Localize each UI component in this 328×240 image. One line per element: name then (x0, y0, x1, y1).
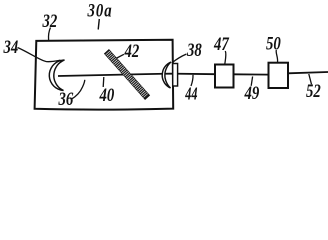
wire 52 output (288, 72, 328, 73)
mirror 38 meniscus (right, at box edge) (162, 62, 171, 88)
leader 47 (225, 51, 226, 64)
svg-text:34: 34 (3, 36, 19, 57)
leader 40 (102, 77, 105, 87)
leader 42 (114, 54, 124, 59)
mirror 38 substrate (173, 64, 178, 87)
mirror 34 (left, concave right) (49, 60, 64, 91)
svg-text:50: 50 (266, 33, 281, 54)
leader 34 (18, 48, 61, 62)
svg-text:32: 32 (42, 10, 58, 31)
svg-text:38: 38 (186, 39, 202, 60)
svg-text:36: 36 (58, 88, 74, 109)
svg-text:30a: 30a (87, 0, 113, 21)
svg-text:52: 52 (306, 80, 321, 101)
svg-text:47: 47 (213, 33, 229, 54)
wire optical axis 36/40 (cavity) (58, 74, 215, 76)
leader 49 (251, 77, 252, 86)
leader 52 (309, 74, 312, 84)
component box 50 (269, 63, 289, 88)
svg-text:40: 40 (99, 84, 115, 105)
leader 30a (98, 19, 99, 30)
laser rod 42 (hatched) (105, 50, 150, 99)
leader 36 (71, 80, 85, 100)
component box 47 (215, 65, 234, 88)
leader 50 (276, 50, 277, 63)
resonator box 32 (35, 40, 174, 110)
leader 38 (172, 54, 187, 63)
svg-text:49: 49 (244, 82, 260, 103)
leader 44 (191, 75, 193, 86)
leader 32 (48, 28, 50, 41)
svg-text:44: 44 (184, 86, 197, 105)
svg-text:42: 42 (124, 40, 140, 61)
wire 49 between boxes (234, 73, 269, 75)
